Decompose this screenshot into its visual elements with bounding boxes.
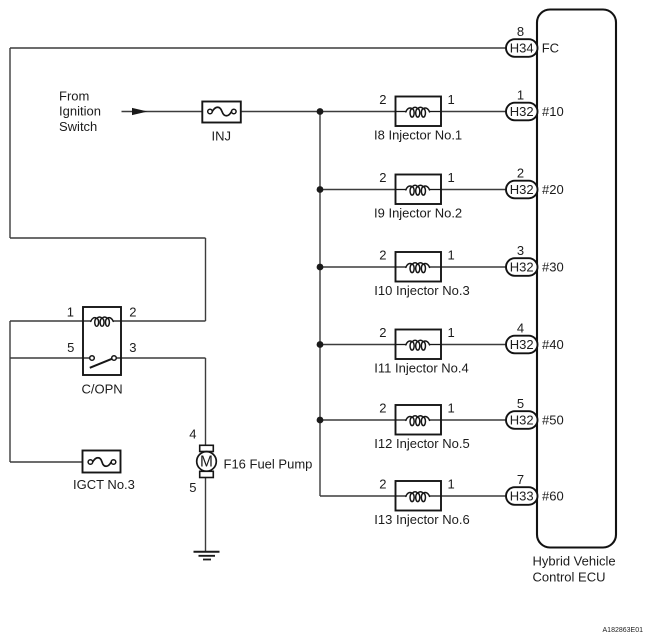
- ECU box Hybrid Vehicle Control ECU: [537, 10, 616, 548]
- connector H32 oval row 3: [506, 258, 538, 276]
- wire left vertical pin1/pin5/IGCT tie: [9, 321, 11, 462]
- wire I10 internal pin 2 side: [396, 266, 407, 268]
- svg-text:I11 Injector No.4: I11 Injector No.4: [374, 360, 468, 375]
- wire injector bus vertical: [319, 112, 321, 497]
- relay coil winding: [91, 317, 113, 326]
- svg-text:#40: #40: [542, 337, 564, 352]
- fuse INJ element left terminal: [208, 109, 213, 114]
- wire I11 internal pin 2 side: [396, 344, 407, 346]
- svg-text:2: 2: [379, 325, 386, 340]
- wire row 2 injector to H32: [441, 189, 506, 191]
- svg-text:H34: H34: [510, 41, 534, 56]
- arrow head on ignition feed: [132, 108, 148, 115]
- junction dot row 5: [317, 417, 324, 424]
- wire row 4 bus to injector: [320, 344, 396, 346]
- svg-text:#30: #30: [542, 260, 564, 275]
- svg-text:1: 1: [448, 170, 455, 185]
- svg-text:I8 Injector No.1: I8 Injector No.1: [374, 127, 462, 142]
- svg-text:I13 Injector No.6: I13 Injector No.6: [374, 512, 469, 527]
- wire I8 internal pin 2 side: [396, 111, 407, 113]
- wire I9 internal pin 2 side: [396, 189, 407, 191]
- wire row 4 injector to H32: [441, 344, 506, 346]
- injector I9 box: [396, 175, 442, 205]
- svg-text:4: 4: [517, 320, 524, 335]
- wire relay pin 1 horizontal: [10, 320, 83, 322]
- connector H32 oval row 4: [506, 336, 538, 354]
- wire relay pin 5 internal: [83, 357, 90, 359]
- injector I8 box: [396, 97, 442, 127]
- svg-text:Switch: Switch: [59, 119, 97, 134]
- connector H34 oval: [506, 39, 538, 57]
- svg-text:2: 2: [129, 305, 136, 320]
- junction dot row 1: [317, 108, 324, 115]
- wire vertical drop to relay pin 2: [205, 238, 207, 321]
- wire row 3 bus to injector: [320, 266, 396, 268]
- svg-text:#60: #60: [542, 489, 564, 504]
- motor F16 upper terminal cap: [200, 445, 214, 451]
- svg-text:4: 4: [189, 427, 196, 442]
- svg-text:1: 1: [517, 87, 524, 102]
- relay C/OPN box: [83, 307, 121, 375]
- fuse IGCT element: [93, 458, 112, 467]
- svg-text:5: 5: [517, 396, 524, 411]
- svg-text:2: 2: [379, 477, 386, 492]
- coil winding I10: [406, 263, 430, 273]
- svg-text:1: 1: [448, 248, 455, 263]
- relay contact pin 3: [112, 356, 117, 361]
- svg-text:#50: #50: [542, 413, 564, 428]
- svg-text:1: 1: [67, 305, 74, 320]
- coil winding I11: [406, 340, 430, 350]
- svg-text:C/OPN: C/OPN: [82, 381, 123, 396]
- fuse IGCT element left terminal: [88, 460, 93, 465]
- svg-text:2: 2: [517, 165, 524, 180]
- coil winding I8: [406, 107, 430, 117]
- wire row 2 bus to injector: [320, 189, 396, 191]
- wire left outer vertical: [9, 48, 11, 238]
- coil winding I9: [406, 185, 430, 195]
- svg-text:F16 Fuel Pump: F16 Fuel Pump: [224, 456, 313, 471]
- fuse INJ element right terminal: [232, 109, 237, 114]
- svg-text:1: 1: [448, 401, 455, 416]
- motor F16 fuel pump: [197, 445, 217, 477]
- wire row 3 injector to H32: [441, 266, 506, 268]
- svg-text:H33: H33: [510, 489, 534, 504]
- svg-text:5: 5: [67, 340, 74, 355]
- svg-text:5: 5: [189, 480, 196, 495]
- svg-text:Control ECU: Control ECU: [533, 569, 606, 584]
- svg-text:2: 2: [379, 401, 386, 416]
- wire row 6 bus corner to injector: [320, 495, 396, 497]
- svg-text:IGCT No.3: IGCT No.3: [73, 477, 135, 492]
- svg-text:H32: H32: [510, 104, 534, 119]
- wire I12 internal pin 1 side: [429, 419, 441, 421]
- svg-text:I10 Injector No.3: I10 Injector No.3: [374, 283, 469, 298]
- svg-text:1: 1: [448, 477, 455, 492]
- coil winding I13: [406, 492, 430, 502]
- svg-text:8: 8: [517, 24, 524, 39]
- svg-text:M: M: [200, 454, 213, 471]
- relay switch blade: [90, 359, 112, 368]
- svg-text:#20: #20: [542, 182, 564, 197]
- fuse INJ element: [212, 107, 231, 116]
- svg-text:1: 1: [448, 92, 455, 107]
- relay contact pin 5: [90, 356, 95, 361]
- wire I11 internal pin 1 side: [429, 344, 441, 346]
- fuse IGCT element right terminal: [111, 460, 116, 465]
- connector H33 oval row 6: [506, 487, 538, 505]
- svg-text:H32: H32: [510, 260, 534, 275]
- svg-text:H32: H32: [510, 337, 534, 352]
- svg-text:INJ: INJ: [212, 129, 232, 144]
- wire relay coil to pin 1: [83, 320, 91, 322]
- wire row 1 injector to H32: [441, 111, 506, 113]
- svg-text:1: 1: [448, 325, 455, 340]
- wire INJ to injector bus row 1: [241, 111, 396, 113]
- fuse INJ: [202, 102, 241, 123]
- junction dot row 3: [317, 264, 324, 271]
- ground bar 3: [203, 559, 211, 561]
- svg-text:2: 2: [379, 92, 386, 107]
- injector I11 box: [396, 330, 442, 360]
- fuse IGCT No.3: [83, 451, 121, 473]
- connector H32 oval row 2: [506, 181, 538, 199]
- svg-text:FC: FC: [542, 41, 559, 56]
- svg-text:From: From: [59, 88, 89, 103]
- svg-text:3: 3: [517, 243, 524, 258]
- wire relay coil to pin 2: [113, 320, 121, 322]
- svg-text:H32: H32: [510, 413, 534, 428]
- wire I8 internal pin 1 side: [429, 111, 441, 113]
- svg-text:A182863E01: A182863E01: [603, 627, 644, 634]
- wire I10 internal pin 1 side: [429, 266, 441, 268]
- wire row 5 bus to injector: [320, 419, 396, 421]
- wire lower horizontal of outer loop: [10, 237, 206, 239]
- ground bar 1: [194, 551, 220, 553]
- wire vertical drop to fuel pump pin 4: [205, 358, 207, 446]
- injector I10 box: [396, 252, 442, 282]
- svg-text:I9 Injector No.2: I9 Injector No.2: [374, 205, 462, 220]
- motor F16 body circle: [197, 452, 217, 472]
- wire relay pin 3 horizontal: [121, 357, 206, 359]
- wire I13 internal pin 1 side: [429, 495, 441, 497]
- wire to IGCT fuse: [10, 461, 83, 463]
- svg-text:Hybrid Vehicle: Hybrid Vehicle: [533, 554, 616, 569]
- svg-text:H32: H32: [510, 182, 534, 197]
- wire FC feed: top horizontal from left loop to H34: [10, 47, 506, 49]
- junction dot row 2: [317, 186, 324, 193]
- injector I12 box: [396, 405, 442, 435]
- connector H32 oval row 5: [506, 411, 538, 429]
- wire fuel pump pin 5 to ground: [205, 478, 207, 552]
- svg-text:7: 7: [517, 472, 524, 487]
- wire relay pin 5 horizontal: [10, 357, 83, 359]
- junction dot row 4: [317, 341, 324, 348]
- svg-text:2: 2: [379, 170, 386, 185]
- coil winding I12: [406, 416, 430, 426]
- injector I13 box: [396, 481, 442, 511]
- svg-text:I12 Injector No.5: I12 Injector No.5: [374, 436, 469, 451]
- wire I12 internal pin 2 side: [396, 419, 407, 421]
- wire I13 internal pin 2 side: [396, 495, 407, 497]
- ground symbol: [194, 552, 220, 560]
- connector H32 oval row 1: [506, 103, 538, 121]
- wire relay pin 2 horizontal: [121, 320, 206, 322]
- wire row 6 injector to H33: [441, 495, 506, 497]
- wire ignition feed with arrow tail: [122, 111, 203, 113]
- svg-text:#10: #10: [542, 104, 564, 119]
- ground bar 2: [199, 555, 216, 557]
- motor F16 lower terminal cap: [200, 471, 214, 477]
- wire relay pin 3 internal: [116, 357, 121, 359]
- svg-text:2: 2: [379, 248, 386, 263]
- wire row 5 injector to H32: [441, 419, 506, 421]
- wire I9 internal pin 1 side: [429, 189, 441, 191]
- svg-text:Ignition: Ignition: [59, 104, 101, 119]
- svg-text:3: 3: [129, 340, 136, 355]
